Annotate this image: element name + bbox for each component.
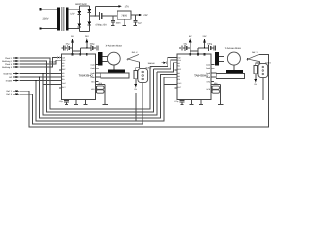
wire VM cap rail (Y) — [198, 47, 209, 49]
svg-text:OutB: OutB — [206, 76, 211, 79]
wire Ref X bus — [19, 83, 142, 124]
capacitor C6 100u (X VM) — [91, 45, 96, 51]
resistor R1 (X pullup) — [134, 70, 138, 78]
wire Richtung X jog into IC X — [19, 58, 57, 68]
svg-text:24V: 24V — [85, 35, 89, 38]
motor M_Y — [227, 52, 240, 65]
wire DC mid rail — [89, 15, 99, 17]
diode D4 (bridge) — [88, 22, 92, 25]
wire Clock Y jog into IC Y — [150, 57, 177, 66]
svg-text:2µ2: 2µ2 — [138, 22, 142, 25]
svg-text:Richtung X: Richtung X — [2, 66, 13, 69]
ground (IC X pin a) — [74, 100, 78, 105]
capacitor C7 100n (X VM) — [96, 45, 98, 50]
svg-text:CLK: CLK — [178, 59, 182, 62]
capacitor C1 4700u — [100, 12, 118, 20]
svg-text:Mode M1: Mode M1 — [4, 72, 14, 75]
svg-text:NFA: NFA — [91, 80, 95, 83]
svg-text:17V: 17V — [125, 6, 130, 9]
wire Enable to IC X and bus — [19, 77, 176, 121]
wire regulator ground — [123, 19, 125, 25]
svg-text:1N4148: 1N4148 — [147, 62, 155, 65]
wire Clock Y to bus — [19, 58, 150, 109]
svg-text:12V: 12V — [70, 12, 75, 15]
svg-text:EN: EN — [62, 78, 65, 81]
svg-text:REF: REF — [178, 68, 182, 71]
svg-text:OutA: OutA — [90, 63, 95, 66]
svg-text:RST: RST — [178, 86, 182, 89]
IC U2 TA8435HQ (X) — [61, 54, 95, 100]
node junction unreg — [95, 15, 96, 16]
diode D2 (bridge) — [78, 24, 82, 27]
svg-text:OutA: OutA — [90, 67, 95, 70]
wire secondary top — [69, 8, 80, 10]
resistor R3 (Y pullup) — [254, 65, 258, 73]
transformer TR1 — [57, 7, 68, 31]
wire regulator output — [131, 14, 139, 16]
sense resistors R2a R2b 0R8 (X) — [95, 82, 105, 93]
svg-text:Enable: Enable — [6, 79, 13, 82]
svg-text:M2: M2 — [178, 65, 181, 68]
svg-text:Clock X: Clock X — [5, 63, 13, 66]
wire Ref Y loop to right edge — [19, 54, 268, 127]
svg-text:24V: 24V — [203, 35, 207, 38]
svg-text:Y-Achsen Motor: Y-Achsen Motor — [225, 47, 241, 50]
IC U3 pin labels left — [178, 56, 183, 89]
svg-text:Ref. X: Ref. X — [6, 93, 12, 96]
diode D1 (bridge) — [78, 11, 82, 14]
capacitor C9 100n (Y 5V) — [179, 45, 185, 50]
capacitor C10 47u (Y 5V) — [185, 45, 190, 51]
svg-text:Clock Y: Clock Y — [5, 57, 13, 60]
IC U2 pin labels left — [62, 56, 67, 89]
power arrow 24V (Y) — [204, 40, 206, 48]
wire Richtung Y to bus — [19, 61, 153, 112]
IC U2 pin pads top — [72, 53, 74, 55]
terminal bar (X motor upper) — [98, 52, 102, 66]
svg-text:7805: 7805 — [121, 14, 127, 17]
wire secondary bottom — [69, 28, 80, 30]
svg-text:5V: 5V — [189, 35, 192, 38]
svg-text:OSC: OSC — [178, 82, 183, 85]
svg-text:+5V: +5V — [143, 14, 148, 17]
svg-text:CW: CW — [178, 56, 181, 59]
svg-text:RST: RST — [62, 86, 66, 89]
svg-text:1N4148: 1N4148 — [49, 61, 57, 64]
svg-text:NFB: NFB — [206, 88, 210, 91]
wire top rail 17V — [95, 5, 118, 7]
svg-text:M2: M2 — [178, 75, 181, 78]
svg-text:OutB: OutB — [90, 76, 95, 79]
wire motor X bottom — [113, 65, 115, 70]
wire cap link (Y) — [190, 48, 198, 54]
power arrow 5V (X pullup) — [134, 84, 137, 87]
wire Clock X jog into IC X — [19, 60, 61, 64]
svg-text:230V: 230V — [42, 17, 48, 20]
terminal bar (X motor lower) — [108, 70, 125, 73]
IC U3 pin labels right — [206, 63, 211, 91]
power arrow +17V — [118, 5, 121, 8]
ground (sense X) — [103, 93, 109, 104]
power arrow 24V (X) — [86, 40, 88, 48]
svg-text:OSC: OSC — [62, 82, 67, 85]
wire motor X feeds — [102, 57, 107, 62]
terminal bar (Y motor upper) — [215, 52, 219, 66]
svg-text:270p: 270p — [59, 100, 63, 103]
ground (IC Y pin b) — [199, 100, 203, 105]
svg-text:M1: M1 — [178, 62, 181, 65]
svg-text:EN: EN — [178, 78, 181, 81]
svg-text:B40C1500: B40C1500 — [75, 3, 87, 6]
wire SUB-D Y down — [262, 78, 264, 100]
IC U2 left pin stubs — [59, 70, 61, 88]
wire motor Y bottom — [233, 65, 235, 70]
wire stub (block X misc) — [135, 93, 137, 121]
svg-text:X-Achsen Motor: X-Achsen Motor — [106, 44, 123, 47]
svg-text:CLK: CLK — [62, 59, 66, 62]
wire cap link (X) — [73, 48, 81, 54]
svg-text:M1: M1 — [62, 62, 65, 65]
svg-text:NFA: NFA — [207, 80, 211, 83]
IC U3 pin pads top — [189, 53, 191, 55]
sense resistors R4a R4b 0R8 (Y) — [211, 82, 221, 93]
svg-text:OutB: OutB — [90, 72, 95, 75]
cable box (Y outputs) — [216, 74, 244, 79]
wire VM cap rail (X) — [80, 47, 91, 49]
ground (IC X pin b) — [84, 100, 88, 105]
svg-text:Ref. Y: Ref. Y — [6, 90, 12, 93]
svg-text:5V: 5V — [135, 88, 138, 91]
svg-text:REF: REF — [62, 68, 66, 71]
capacitor C8 270p (X osc) — [64, 100, 69, 105]
power arrow +5V out — [139, 14, 142, 17]
svg-text:47µ: 47µ — [183, 43, 187, 46]
ground (C3) — [133, 24, 137, 26]
terminal bar (Y motor lower) — [226, 70, 243, 73]
svg-text:Ref. X: Ref. X — [132, 51, 138, 54]
svg-text:M2: M2 — [62, 75, 65, 78]
diode D3 (bridge) — [88, 9, 92, 12]
svg-text:100µ: 100µ — [207, 43, 213, 46]
svg-text:100n: 100n — [116, 22, 122, 25]
IC U3 TA8435HQ (Y) — [177, 54, 211, 100]
svg-text:M1: M1 — [178, 72, 181, 75]
ground (IC Y pin a) — [189, 100, 193, 105]
ground (U1) — [122, 24, 126, 26]
svg-text:CW: CW — [62, 56, 65, 59]
svg-text:Ref. Y: Ref. Y — [252, 51, 258, 54]
bridge rectifier B1 frame — [79, 6, 89, 32]
capacitor C4 100n (X 5V) — [61, 45, 67, 50]
connector 230V terminal bottom — [40, 27, 42, 29]
svg-text:4700µ 25V: 4700µ 25V — [95, 23, 107, 26]
capacitor C12 100n (Y VM) — [214, 45, 216, 50]
svg-text:5V: 5V — [71, 35, 74, 38]
wire M1 jog into IC Y — [157, 63, 177, 72]
wire M1 to IC X and bus — [19, 72, 157, 115]
motor M_X — [107, 52, 120, 65]
svg-text:NFB: NFB — [91, 88, 95, 91]
capacitor C3 2u2 — [133, 15, 137, 25]
capacitor C11 100u (Y VM) — [209, 45, 214, 51]
ground (sense Y) — [218, 93, 224, 104]
power arrow 5V (Y pullup) — [254, 79, 257, 82]
svg-text:47µ: 47µ — [66, 43, 70, 46]
regulator U1 7805 — [117, 11, 131, 19]
IC U2 pin labels right — [90, 63, 95, 91]
power arrow +5V (X) — [72, 40, 74, 54]
svg-text:OutA: OutA — [206, 63, 211, 66]
svg-text:Richtung Y: Richtung Y — [2, 60, 13, 63]
svg-text:100µ: 100µ — [90, 43, 96, 46]
svg-text:M2: M2 — [9, 76, 13, 79]
capacitor C5 47u (X 5V) — [67, 45, 72, 51]
wire Richtung Y jog into IC Y — [154, 60, 177, 69]
svg-text:OutA: OutA — [206, 67, 211, 70]
IC U3 left pin stubs — [174, 70, 176, 88]
svg-text:M1: M1 — [62, 72, 65, 75]
svg-text:270p: 270p — [174, 100, 178, 103]
svg-text:OutB: OutB — [206, 72, 211, 75]
svg-text:M2: M2 — [62, 65, 65, 68]
wire M2 to IC X and bus — [19, 75, 176, 119]
svg-text:5V: 5V — [255, 83, 258, 86]
IC Y output stubs — [211, 65, 217, 82]
power arrow +5V (Y) — [189, 40, 191, 54]
ground (C2) — [111, 24, 115, 26]
IC X output stubs — [95, 65, 101, 82]
wire primary top — [42, 8, 58, 10]
wire primary bottom — [42, 28, 58, 30]
capacitor C13 270p (Y osc) — [179, 100, 184, 105]
capacitor C2 100n — [111, 16, 115, 25]
wire riser to top rail — [94, 6, 96, 16]
cable box (X outputs) — [101, 73, 129, 78]
connector 230V terminal top — [40, 8, 42, 10]
wire motor Y feeds — [219, 57, 224, 62]
